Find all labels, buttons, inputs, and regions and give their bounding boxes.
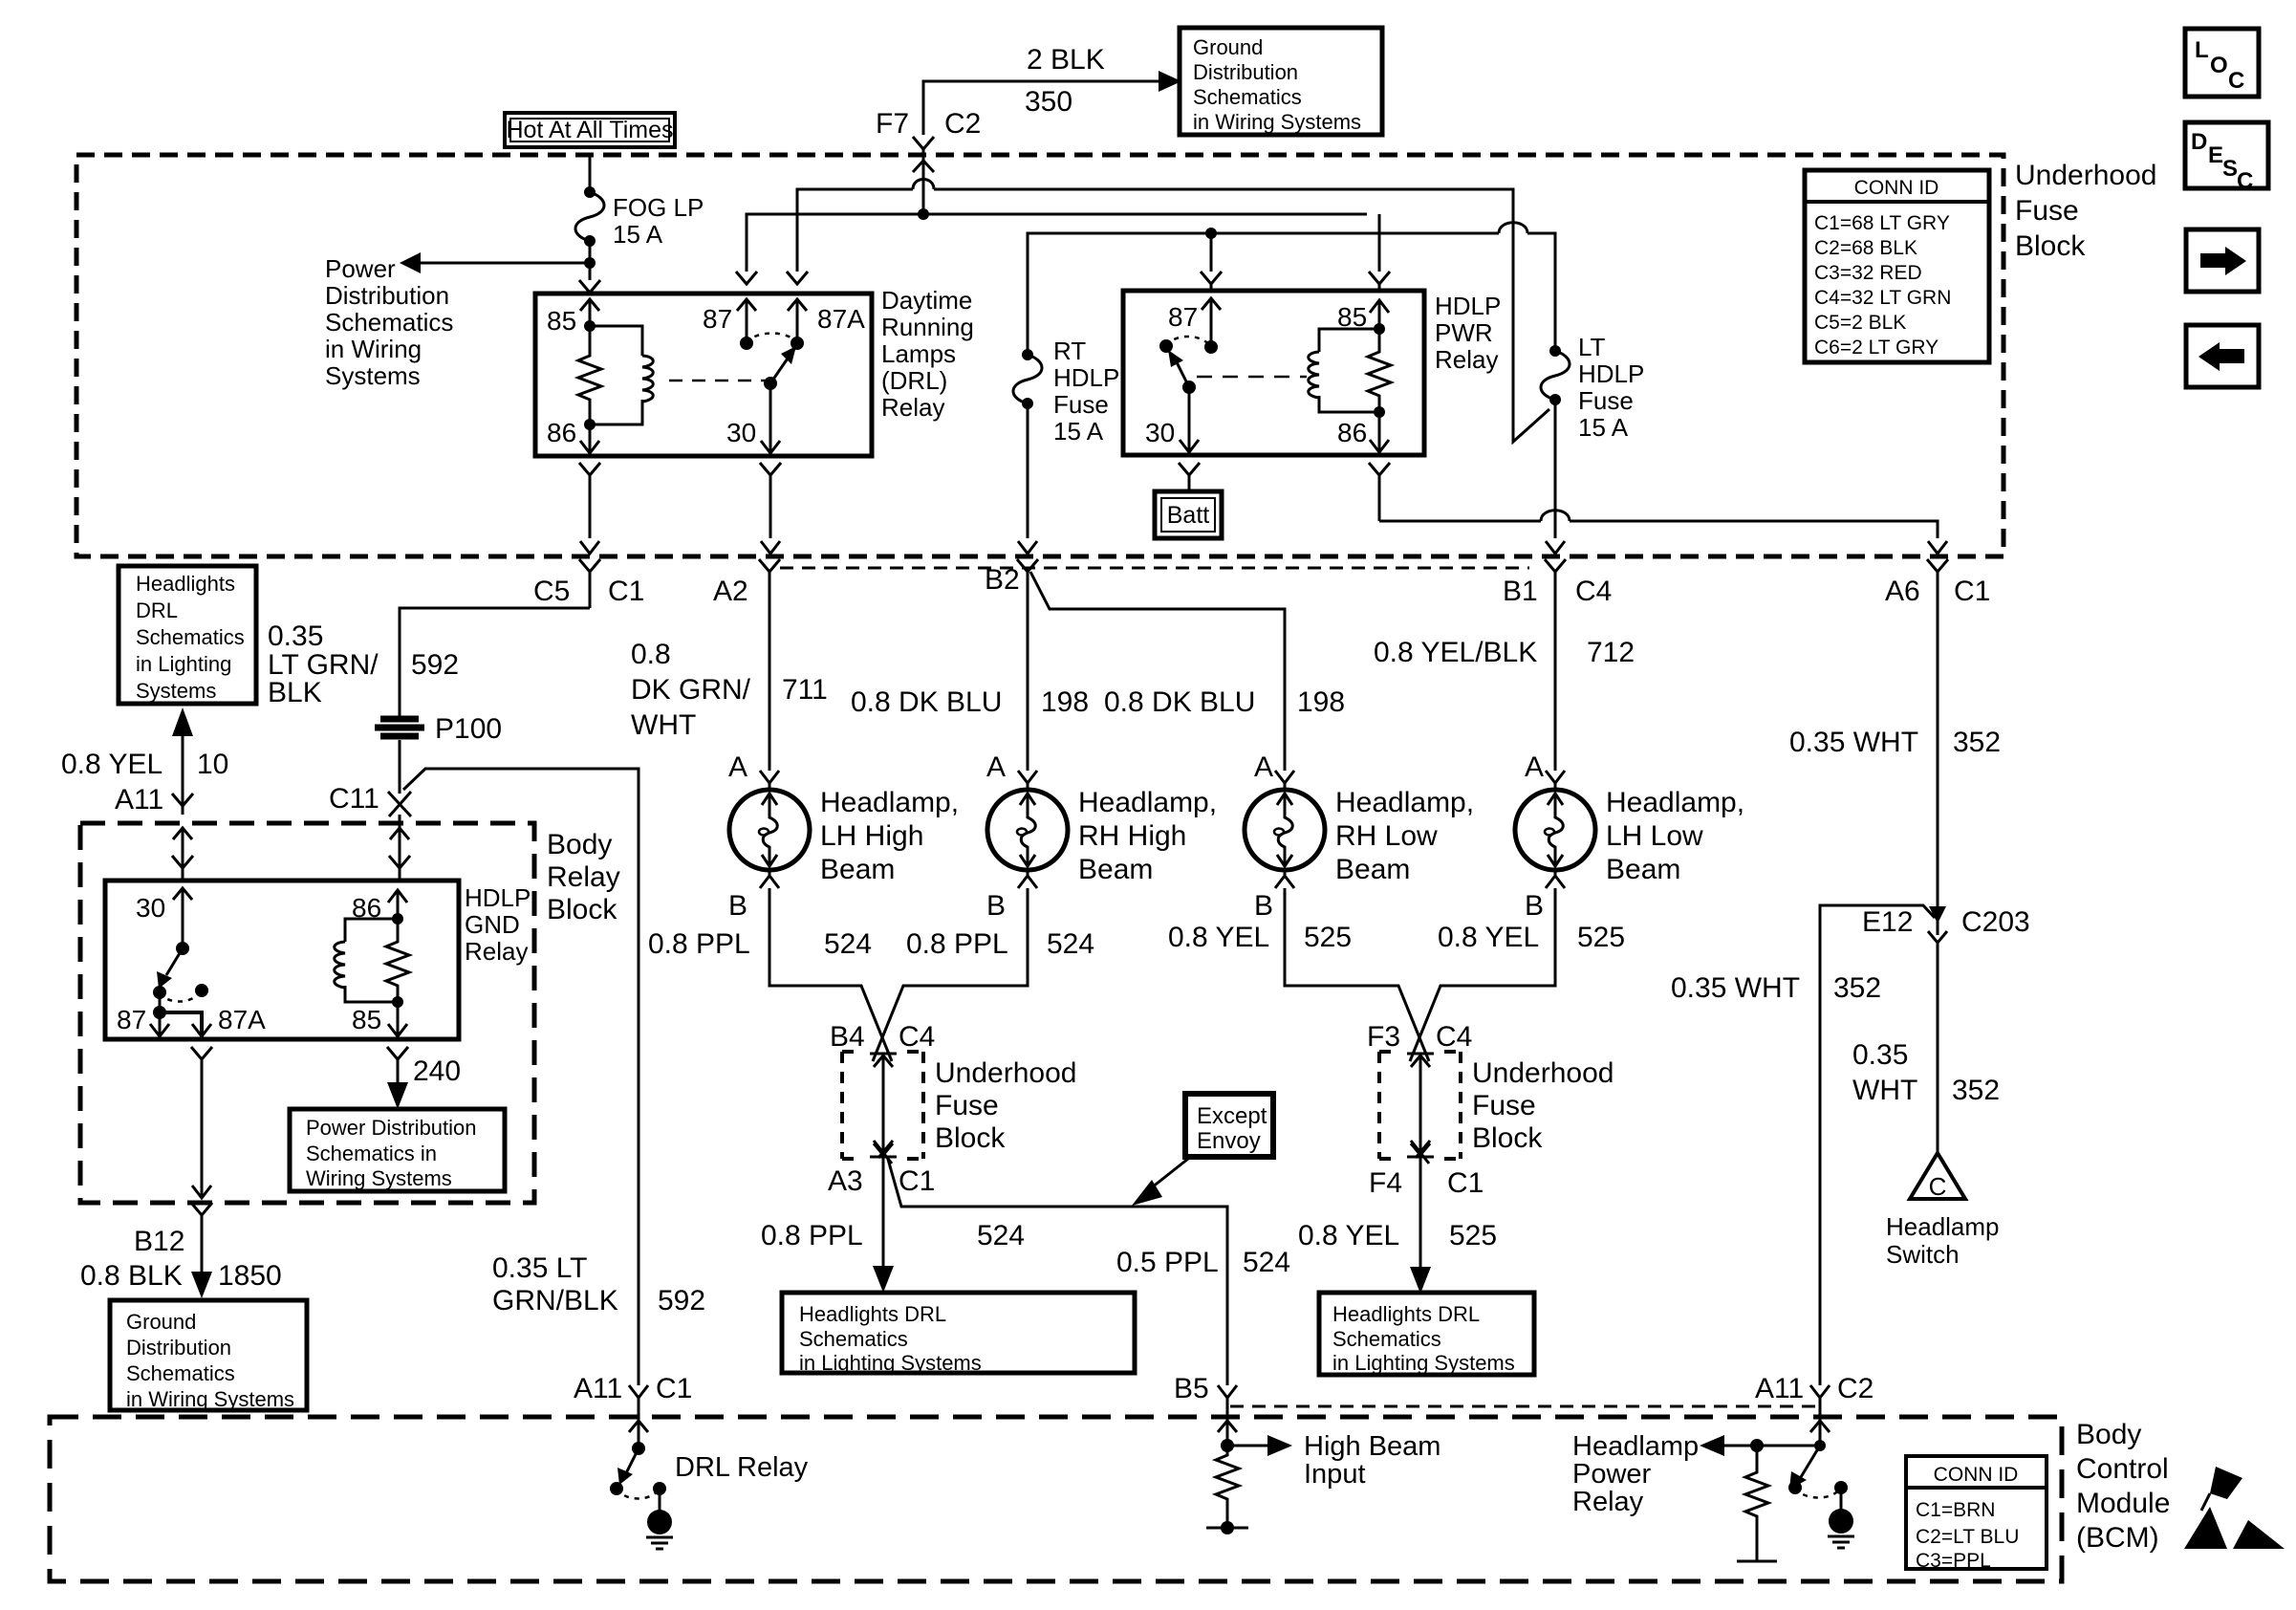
svg-text:LT: LT: [1578, 333, 1606, 361]
wire HDLP PWR pin 85 up to line B: [1378, 214, 1381, 272]
svg-text:86: 86: [547, 418, 576, 447]
svg-text:Beam: Beam: [820, 854, 895, 885]
svg-text:350: 350: [1025, 86, 1072, 118]
connector below HDLP PWR pin 86: [1369, 463, 1390, 521]
svg-text:C: C: [1929, 1172, 1947, 1201]
svg-text:Systems: Systems: [136, 679, 216, 703]
lamp circle LH Low: [1515, 790, 1595, 870]
box Headlights DRL Schematics in Lighting Systems (center): [782, 1293, 1135, 1375]
svg-text:A: A: [728, 751, 747, 783]
svg-text:15 A: 15 A: [1053, 417, 1104, 446]
connector B2: [1017, 559, 1038, 771]
svg-text:198: 198: [1041, 686, 1089, 718]
connector above HDLP GND pin 30: [172, 856, 193, 868]
wire Hot At All Times down to FOG LP fuse: [589, 157, 592, 192]
svg-text:85: 85: [352, 1005, 381, 1034]
svg-text:C1: C1: [656, 1373, 692, 1404]
headlamp RH High Beam: [986, 751, 1217, 922]
pin A connector (LH High): [760, 771, 779, 790]
svg-text:Headlamp,: Headlamp,: [1335, 787, 1474, 818]
svg-text:87A: 87A: [218, 1005, 266, 1034]
connector B12: [191, 1203, 212, 1272]
wire A11 up arrow to Headlights DRL box: [182, 734, 184, 815]
svg-text:C4=32 LT GRN: C4=32 LT GRN: [1814, 287, 1951, 309]
svg-text:L: L: [2195, 37, 2209, 63]
HDLP PWR pin 85 arrow: [1370, 300, 1389, 329]
svg-text:Body: Body: [2076, 1419, 2141, 1450]
svg-text:524: 524: [1047, 928, 1094, 960]
dashed underhood fuse block stub (B4): [842, 1052, 923, 1159]
svg-text:Schematics: Schematics: [799, 1327, 908, 1351]
svg-text:CONN ID: CONN ID: [1934, 1464, 2019, 1486]
HDLP GND 87 wire and L-bar to 87A exit: [153, 1006, 166, 1019]
svg-text:A11: A11: [1755, 1373, 1804, 1404]
Headlamp Power Relay switch to ground: [1788, 1446, 1854, 1548]
svg-text:RT: RT: [1053, 337, 1086, 365]
svg-text:352: 352: [1953, 727, 2001, 758]
svg-text:Envoy: Envoy: [1197, 1128, 1261, 1154]
svg-text:Distribution: Distribution: [1193, 60, 1298, 84]
svg-text:A11: A11: [115, 784, 163, 816]
svg-text:A3: A3: [828, 1165, 863, 1197]
wire A11/C1 into BCM: [638, 1398, 640, 1448]
High Beam Input arrow: [1221, 1431, 1440, 1490]
BCM dashed border: [50, 1417, 2062, 1581]
HDLP PWR pin 87 arrow: [1202, 298, 1221, 347]
arrow 0.8 BLK down to Ground Distribution box: [191, 1272, 212, 1298]
connector above HDLP PWR pin 85: [1369, 272, 1390, 289]
pin B connector (RH Low): [1275, 870, 1294, 888]
svg-text:in Lighting Systems: in Lighting Systems: [1332, 1351, 1515, 1375]
svg-text:Systems: Systems: [325, 361, 421, 390]
pin B connector (LH High): [760, 870, 779, 888]
svg-text:RH Low: RH Low: [1335, 820, 1438, 852]
wire F4 down to Headlights DRL box: [1419, 1152, 1422, 1269]
svg-text:Except: Except: [1197, 1103, 1267, 1129]
svg-text:0.8 YEL: 0.8 YEL: [1168, 922, 1269, 953]
svg-text:592: 592: [411, 649, 459, 681]
svg-text:0.35 LT: 0.35 LT: [492, 1252, 588, 1284]
svg-text:352: 352: [1833, 972, 1881, 1004]
svg-text:Schematics: Schematics: [1332, 1327, 1441, 1351]
relay HDLP PWR box: [1123, 291, 1424, 455]
svg-text:Headlamp: Headlamp: [1572, 1431, 1699, 1462]
svg-text:0.8 YEL: 0.8 YEL: [1298, 1220, 1399, 1251]
svg-text:525: 525: [1449, 1220, 1497, 1251]
DRL switch arm: [770, 356, 790, 383]
DRL relay resistor: [578, 326, 601, 424]
pin B connector (LH Low): [1546, 870, 1565, 888]
arrow crossing body relay block border (A11 wire): [173, 828, 192, 839]
svg-text:Schematics: Schematics: [1193, 85, 1302, 109]
connector above DRL pin 87: [736, 272, 757, 284]
headlamp switch triangle: [1886, 1153, 2000, 1269]
svg-text:524: 524: [977, 1220, 1025, 1251]
svg-text:Headlamp: Headlamp: [1886, 1212, 2000, 1241]
svg-text:C1: C1: [899, 1165, 935, 1197]
svg-text:GRN/BLK: GRN/BLK: [492, 1285, 618, 1316]
svg-text:Headlamp,: Headlamp,: [1606, 787, 1744, 818]
svg-text:Relay: Relay: [465, 937, 528, 966]
arrowhead into ground distribution box: [1159, 71, 1181, 92]
svg-text:711: 711: [782, 674, 828, 706]
svg-text:in Wiring Systems: in Wiring Systems: [1193, 110, 1361, 134]
svg-text:C1: C1: [608, 576, 644, 607]
DRL pin 30 arrow: [761, 383, 780, 454]
DRL pin 87A arrow: [788, 299, 807, 343]
svg-text:Relay: Relay: [1435, 345, 1498, 374]
wire A11/C2 up to C203 junction: [1820, 905, 1935, 1385]
svg-text:Underhood: Underhood: [1472, 1057, 1614, 1089]
wire to power distribution (left arrow): [419, 262, 590, 265]
svg-text:15 A: 15 A: [613, 220, 663, 249]
wire A11 down to HDLP GND pin 30: [182, 828, 184, 880]
svg-text:Beam: Beam: [1606, 854, 1680, 885]
arrow 240 down to Power Distribution box: [397, 1078, 400, 1086]
svg-text:C4: C4: [1436, 1021, 1472, 1053]
svg-text:A: A: [1254, 751, 1273, 783]
connector A11/C1 (BCM): [629, 1385, 648, 1398]
arrow crossing border at F7: [913, 161, 934, 172]
svg-text:0.5 PPL: 0.5 PPL: [1116, 1247, 1219, 1278]
wire LT fuse down to B1: [1554, 400, 1557, 538]
box Hot At All Times: [505, 113, 675, 147]
svg-text:C1=BRN: C1=BRN: [1916, 1499, 1995, 1521]
svg-text:15 A: 15 A: [1578, 413, 1629, 442]
connector above HDLP GND pin 86: [389, 856, 410, 868]
svg-text:Fuse: Fuse: [1578, 386, 1634, 415]
svg-text:240: 240: [413, 1055, 461, 1087]
svg-text:C2=LT BLU: C2=LT BLU: [1916, 1526, 2019, 1548]
svg-text:Power Distribution: Power Distribution: [306, 1116, 477, 1140]
svg-text:Module: Module: [2076, 1488, 2170, 1519]
svg-text:Block: Block: [547, 894, 617, 925]
wire line B (DRL 87 to F7 ground): [747, 214, 1367, 272]
svg-text:0.8 BLK: 0.8 BLK: [80, 1260, 183, 1292]
Headlamp Power Relay arrow: [1572, 1431, 1826, 1517]
arrow crossing BCM border (B5): [1218, 1421, 1237, 1432]
svg-text:C1: C1: [1447, 1167, 1484, 1199]
svg-text:DRL: DRL: [136, 598, 178, 622]
HDLP GND switch contact dots: [153, 986, 166, 999]
HDLP PWR switch arc dashed: [1166, 337, 1211, 347]
svg-text:524: 524: [824, 928, 872, 960]
svg-text:Fuse: Fuse: [1053, 390, 1109, 419]
svg-text:HDLP: HDLP: [1578, 359, 1644, 388]
svg-text:A6: A6: [1885, 576, 1920, 607]
filament RH High: [1020, 794, 1035, 866]
label Daytime Running Lamps (DRL) Relay: [881, 286, 974, 422]
DRL coil-switch dashed link: [669, 380, 765, 382]
svg-text:Distribution: Distribution: [126, 1336, 231, 1360]
svg-text:0.8 DK BLU: 0.8 DK BLU: [1104, 686, 1255, 718]
svg-text:Relay: Relay: [881, 393, 944, 422]
svg-text:C5=2 BLK: C5=2 BLK: [1814, 312, 1906, 334]
svg-text:85: 85: [1337, 302, 1367, 332]
HDLP GND resistor: [386, 919, 409, 1002]
CONN ID table (BCM): [1906, 1456, 2047, 1572]
svg-text:525: 525: [1577, 922, 1625, 953]
svg-text:O: O: [2210, 53, 2228, 78]
CONN ID table (underhood): [1805, 170, 1989, 362]
wire C11 branch to A11/C1 (0.35 LT GRN/BLK 592): [403, 769, 639, 1385]
wire C203 down to headlamp switch: [1937, 941, 1939, 1155]
wire HDLP PWR pin 87 up to line 3: [1210, 233, 1213, 272]
arrow crossing body relay block bottom (B12 wire): [192, 1186, 211, 1198]
junction dot power distribution tap: [584, 257, 596, 269]
svg-text:HDLP: HDLP: [465, 883, 531, 912]
svg-text:Underhood: Underhood: [935, 1057, 1076, 1089]
svg-text:0.8: 0.8: [631, 639, 671, 670]
svg-text:B: B: [986, 890, 1006, 922]
svg-text:Hot At All Times: Hot At All Times: [506, 117, 673, 143]
wire A3 down to Headlights DRL box: [882, 1152, 885, 1272]
connector C5/C1: [579, 559, 600, 608]
junction dot line3 at pin 87: [1205, 228, 1217, 239]
DRL relay coil: [590, 326, 653, 424]
svg-text:WHT: WHT: [631, 709, 696, 741]
filament LH High: [762, 794, 777, 866]
svg-text:Headlights: Headlights: [136, 572, 235, 596]
connector below DRL pin 86: [579, 463, 600, 538]
thin dashed BCM connector line (B5 to A11/C2): [1230, 1405, 1820, 1408]
svg-text:DK GRN/: DK GRN/: [631, 674, 751, 706]
svg-text:592: 592: [658, 1285, 705, 1316]
connector A2: [759, 559, 780, 771]
DRL pin 86 arrow: [580, 424, 599, 454]
box Power Distribution Schematics in Wiring Systems: [290, 1109, 505, 1191]
svg-text:Relay: Relay: [547, 861, 620, 893]
svg-text:30: 30: [136, 893, 165, 923]
body relay block dashed border: [80, 823, 534, 1203]
arrow crossing BCM border (A11/C1): [629, 1421, 648, 1432]
svg-text:0.8 PPL: 0.8 PPL: [648, 928, 750, 960]
svg-text:in Wiring: in Wiring: [325, 335, 422, 363]
svg-text:0.8 PPL: 0.8 PPL: [761, 1220, 863, 1251]
svg-text:E12: E12: [1862, 906, 1913, 938]
svg-text:0.8 DK BLU: 0.8 DK BLU: [851, 686, 1002, 718]
svg-text:0.35: 0.35: [268, 620, 323, 652]
wire C11 down to HDLP GND relay pin 86: [399, 815, 401, 880]
arrow C5 wire crossing border: [580, 541, 599, 554]
svg-text:352: 352: [1952, 1075, 2000, 1106]
svg-text:87: 87: [703, 304, 732, 334]
svg-text:A: A: [1525, 751, 1544, 783]
svg-text:C1: C1: [1954, 576, 1990, 607]
arrow Except Envoy to 0.5 PPL wire: [1147, 1159, 1188, 1191]
box Batt: [1155, 491, 1222, 538]
wire A3 branch to B5 (0.5 PPL 524): [887, 1156, 1227, 1385]
connector E12/C203 with down arrow: [1929, 906, 1946, 924]
svg-text:WHT: WHT: [1852, 1075, 1917, 1106]
lamp circle LH High: [729, 790, 810, 870]
fuse FOG LP 15A: [575, 186, 704, 249]
arrow B1 wire crossing border: [1546, 541, 1565, 554]
svg-text:E: E: [2208, 142, 2223, 168]
svg-text:B: B: [728, 890, 747, 922]
box LOC: [2185, 29, 2259, 97]
svg-text:A11: A11: [574, 1373, 622, 1404]
lamp circle RH High: [987, 790, 1068, 870]
svg-text:C2: C2: [944, 108, 981, 140]
svg-text:Beam: Beam: [1335, 854, 1410, 885]
wire line A (DRL 87A to LT HDLP fuse): [797, 189, 1549, 442]
arrow crossing BCM border (A11/C2): [1810, 1421, 1830, 1432]
filament RH Low: [1277, 794, 1292, 866]
svg-text:87: 87: [1168, 302, 1198, 332]
wire F7 down into fuse block: [922, 149, 925, 214]
svg-text:Schematics: Schematics: [136, 625, 245, 649]
box Except Envoy: [1185, 1094, 1273, 1157]
relay HDLP GND box: [105, 881, 459, 1039]
wire inside B4 stub with arrows: [870, 1054, 897, 1157]
connector F4/C1: [1411, 1141, 1430, 1164]
svg-text:C2=68 BLK: C2=68 BLK: [1814, 237, 1917, 259]
arrow A2 wire crossing border: [761, 541, 780, 554]
HDLP PWR resistor: [1368, 329, 1391, 412]
svg-text:GND: GND: [465, 910, 520, 939]
connector F7/C2: [913, 137, 934, 149]
svg-text:C11: C11: [329, 783, 379, 815]
box Ground Distribution Schematics (top): [1180, 28, 1382, 135]
svg-text:Distribution: Distribution: [325, 281, 449, 310]
connector below HDLP PWR pin 30: [1179, 463, 1200, 491]
svg-text:(BCM): (BCM): [2076, 1522, 2159, 1554]
High Beam Input resistor to ground bar: [1206, 1446, 1248, 1528]
wire line 4 (pin 86 to A6): [1379, 521, 1938, 538]
wire LH Low B down and over to F3: [1410, 888, 1555, 1061]
svg-text:Control: Control: [2076, 1453, 2169, 1485]
svg-text:198: 198: [1297, 686, 1345, 718]
svg-text:F7: F7: [876, 108, 909, 140]
svg-text:LH High: LH High: [820, 820, 923, 852]
pin A connector (RH High): [1018, 771, 1037, 790]
svg-text:86: 86: [1337, 418, 1367, 447]
pin B connector (RH High): [1018, 870, 1037, 888]
wire RH Low B down and over to F3: [1285, 888, 1429, 1061]
thin dashed connector line C4 (A2 to B1): [780, 567, 1529, 570]
svg-text:Power: Power: [325, 254, 396, 283]
underhood fuse block dashed border: [76, 155, 2004, 556]
svg-text:DRL Relay: DRL Relay: [675, 1452, 809, 1483]
arrow A6 wire crossing border: [1928, 541, 1947, 554]
HDLP PWR coil-switch dashed link: [1197, 376, 1307, 379]
HDLP PWR pin 86 arrow: [1370, 412, 1389, 453]
svg-text:C: C: [2237, 168, 2253, 194]
svg-text:Schematics: Schematics: [325, 308, 453, 337]
Headlamp Power Relay resistor to bar: [1737, 1446, 1777, 1561]
svg-text:C4: C4: [899, 1021, 935, 1053]
box Headlights DRL Schematics in Lighting Systems (right): [1319, 1293, 1534, 1375]
wire B2 branch to RH Low: [1030, 572, 1285, 771]
HDLP GND coil: [335, 919, 398, 1002]
svg-text:525: 525: [1304, 922, 1352, 953]
wire line 3 (RT fuse top - pin 87 - LT fuse top): [1028, 233, 1555, 355]
svg-text:30: 30: [1145, 418, 1175, 447]
box Headlights DRL Schematics in Lighting Systems (left): [119, 566, 256, 704]
svg-text:(DRL): (DRL): [881, 366, 947, 395]
svg-text:Power: Power: [1572, 1459, 1652, 1490]
fuse RT HDLP 15A: [1013, 337, 1119, 446]
DRL pin 87 arrow: [737, 299, 756, 343]
headlamp LH High Beam: [728, 751, 959, 922]
pin A connector (LH Low): [1546, 771, 1565, 790]
svg-text:Running: Running: [881, 313, 974, 341]
svg-text:Ground: Ground: [1193, 35, 1263, 59]
connector B5 (BCM): [1218, 1385, 1237, 1398]
svg-text:Headlights DRL: Headlights DRL: [799, 1302, 946, 1326]
svg-text:BLK: BLK: [268, 677, 322, 708]
connector above HDLP PWR pin 87: [1201, 272, 1222, 289]
hop of line A over F7 wire: [913, 180, 934, 190]
svg-text:Schematics: Schematics: [126, 1361, 235, 1385]
svg-text:Beam: Beam: [1078, 854, 1153, 885]
svg-text:F4: F4: [1369, 1167, 1402, 1199]
svg-text:Daytime: Daytime: [881, 286, 972, 315]
svg-text:30: 30: [726, 418, 756, 447]
svg-text:C: C: [2228, 68, 2244, 94]
fuse LT HDLP 15A: [1541, 333, 1644, 442]
connector below DRL pin 30: [760, 463, 781, 538]
svg-text:Input: Input: [1304, 1459, 1366, 1490]
hop of line 3 over 87A vertical: [1499, 223, 1527, 233]
connector A3/C1: [874, 1141, 893, 1164]
connector above DRL pin 87A: [787, 272, 808, 284]
svg-text:F3: F3: [1367, 1021, 1400, 1053]
svg-text:Ground: Ground: [126, 1310, 196, 1334]
svg-text:in Wiring Systems: in Wiring Systems: [126, 1387, 294, 1411]
svg-text:C203: C203: [1961, 906, 2030, 938]
dashed underhood fuse block stub (F3): [1379, 1052, 1461, 1159]
wire C1 to P100 to C11: [400, 608, 590, 794]
svg-text:2 BLK: 2 BLK: [1027, 44, 1105, 76]
connector B1: [1545, 559, 1566, 771]
svg-text:Block: Block: [2015, 230, 2086, 262]
wire B5 into BCM: [1226, 1398, 1229, 1446]
wire HDLP GND 87A down to B12: [201, 1059, 204, 1198]
DRL switch arc dashed: [747, 334, 797, 344]
svg-text:0.8 YEL: 0.8 YEL: [1438, 922, 1539, 953]
svg-text:in Lighting Systems: in Lighting Systems: [799, 1351, 982, 1375]
svg-text:Block: Block: [1472, 1122, 1543, 1154]
wire F7 to ground distribution (2 BLK 350): [923, 81, 1162, 135]
lamp circle RH Low: [1245, 790, 1325, 870]
box left arrow: [2186, 325, 2259, 387]
svg-text:Batt: Batt: [1167, 502, 1210, 529]
svg-text:in Lighting: in Lighting: [136, 652, 231, 676]
svg-text:HDLP: HDLP: [1053, 363, 1119, 392]
arrow crossing body relay block border (C11 wire): [390, 828, 409, 839]
svg-text:0.8 PPL: 0.8 PPL: [906, 928, 1008, 960]
box DESC: [2185, 122, 2268, 194]
wire A11/C2 into BCM: [1819, 1398, 1822, 1446]
svg-text:0.8 YEL: 0.8 YEL: [61, 749, 162, 780]
relay DRL (Daytime Running Lamps) box: [535, 294, 872, 456]
svg-text:A2: A2: [713, 576, 748, 607]
connector below HDLP GND pin 85: [387, 1047, 408, 1078]
HDLP PWR switch contact dot: [1159, 339, 1173, 353]
svg-text:87: 87: [117, 1005, 146, 1034]
svg-text:712: 712: [1587, 637, 1635, 668]
svg-text:Headlamp,: Headlamp,: [820, 787, 959, 818]
svg-text:85: 85: [547, 306, 576, 336]
svg-text:Fuse: Fuse: [1472, 1090, 1536, 1121]
wire inside F3 stub with arrows: [1407, 1054, 1434, 1157]
svg-text:0.35: 0.35: [1852, 1039, 1908, 1071]
pin A connector (RH Low): [1275, 771, 1294, 790]
filament LH Low: [1548, 794, 1563, 866]
DRL Relay (BCM) switch: [610, 1442, 809, 1549]
